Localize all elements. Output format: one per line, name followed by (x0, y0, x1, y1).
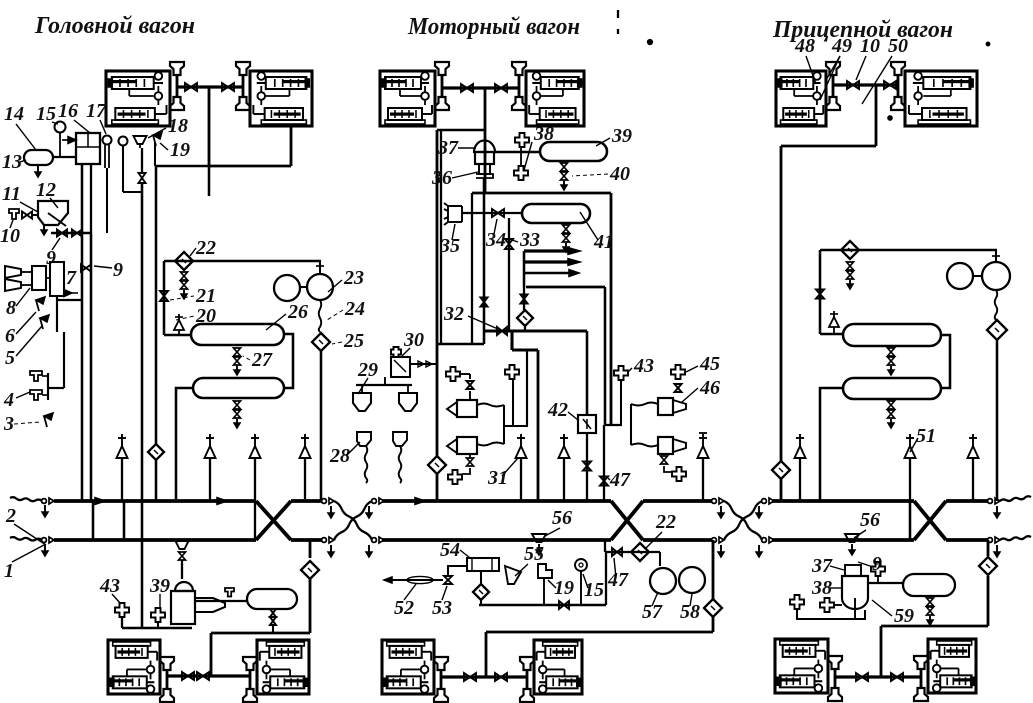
svg-text:47: 47 (609, 469, 631, 491)
valve bracket 7 (32, 266, 46, 290)
stop crane riser (520, 458, 522, 501)
leader (404, 584, 416, 600)
cross fitting 43 (115, 603, 129, 617)
leader (14, 524, 46, 545)
pipe (441, 75, 444, 97)
drain (927, 598, 934, 602)
pipe (659, 552, 661, 566)
stray mark (617, 29, 619, 34)
riser to clover 43 (620, 381, 622, 425)
hose coupling 35 (444, 203, 462, 225)
drain arrow (44, 544, 46, 556)
leader (442, 586, 447, 600)
drain arrow (720, 506, 722, 518)
pipe (820, 333, 843, 336)
svg-text:22: 22 (195, 237, 216, 259)
feed drop to head bottom bogie (210, 633, 213, 676)
pipe (437, 129, 485, 132)
svg-text:26: 26 (287, 301, 308, 323)
pipe (209, 165, 291, 168)
pipe riser (712, 540, 715, 600)
tail hose (brake, right) (1000, 536, 1031, 540)
brake cylinder hose head (right bottom) (914, 688, 928, 701)
brake pipe (motor car) (382, 538, 611, 542)
leader (652, 592, 658, 606)
sand valve right (393, 432, 407, 446)
dirt collector (473, 584, 489, 600)
electro-compressor 37 (474, 140, 495, 152)
dirt collector (979, 557, 997, 575)
valve 47 (600, 477, 608, 482)
end cock (712, 499, 717, 504)
pipe (157, 622, 159, 628)
svg-text:40: 40 (609, 163, 630, 185)
bogie brake unit block (right) (534, 640, 582, 694)
drain valve 40 (561, 163, 568, 167)
pipe to trailer dirt collector (780, 146, 783, 461)
leader (160, 143, 168, 150)
brake cylinder hose head (left top) (160, 657, 174, 670)
leader (502, 458, 518, 476)
svg-text:33: 33 (519, 229, 540, 251)
isolating valve (185, 83, 191, 91)
pipe (880, 626, 883, 630)
svg-text:13: 13 (2, 151, 22, 173)
pipe (53, 156, 76, 158)
pipe (523, 287, 525, 310)
valve (675, 384, 682, 388)
drain valve (270, 609, 276, 613)
leader (16, 326, 42, 356)
valve 53 (444, 576, 452, 580)
leader (460, 550, 470, 558)
leader (16, 392, 30, 398)
check valve (847, 262, 854, 266)
leader (458, 147, 476, 149)
release valve 3 (44, 416, 47, 427)
leader (806, 56, 816, 84)
drain 41 (563, 225, 570, 229)
pipe (484, 329, 587, 332)
feeder pipe (head car) (54, 499, 256, 503)
sand manifold (384, 377, 386, 385)
inter-car hose X (head-motor) (334, 501, 372, 540)
drain funnel on brake pipe (176, 541, 189, 549)
pipe (780, 479, 783, 501)
drain arrow (996, 506, 998, 518)
pipe from valve (122, 145, 124, 192)
svg-text:59: 59 (894, 605, 914, 627)
sand hopper right (399, 393, 417, 411)
leader (100, 120, 106, 134)
svg-text:56: 56 (552, 507, 572, 529)
connecting pipe between bogie blocks (833, 83, 898, 86)
leader (686, 366, 698, 372)
dirt collector 22 (175, 252, 193, 270)
inlet arrow (62, 139, 76, 141)
leader (856, 56, 866, 80)
pipe (155, 166, 158, 444)
pipe (142, 627, 192, 630)
end cock (762, 538, 767, 543)
pipe (606, 551, 660, 553)
squiggle (995, 290, 998, 320)
leader (358, 378, 368, 394)
leader (858, 562, 870, 566)
drain arrow (758, 506, 760, 518)
pipe (868, 582, 903, 584)
sander valve 30 (391, 357, 410, 377)
leader (512, 240, 518, 242)
pipe from funnel 18 (141, 148, 143, 172)
valve (583, 462, 591, 467)
svg-text:12: 12 (36, 179, 56, 201)
atomizer lower (658, 437, 673, 454)
check valve under 22 (181, 272, 188, 276)
stop crane riser (702, 458, 704, 501)
svg-text:5: 5 (5, 347, 15, 369)
svg-text:55: 55 (524, 543, 544, 565)
main reservoir 26 (191, 324, 284, 345)
pipe (523, 251, 526, 287)
leader (854, 530, 866, 538)
leader (628, 368, 632, 372)
svg-text:16: 16 (58, 100, 78, 122)
bogie brake unit block (right) (928, 639, 976, 693)
pipe (832, 75, 835, 97)
dash leader (170, 296, 194, 300)
valve (57, 230, 62, 237)
leader (614, 558, 616, 578)
sand pipe left (365, 446, 368, 483)
svg-text:54: 54 (440, 539, 460, 561)
svg-text:7: 7 (66, 267, 77, 289)
dash leader (243, 356, 250, 360)
cross fitting (151, 608, 165, 622)
brake cylinder hose head (left top) (434, 657, 448, 670)
pipe (163, 261, 166, 335)
leader (50, 198, 58, 208)
bogie brake unit block (left) (382, 640, 434, 694)
device 4 body (47, 373, 49, 400)
pipe (479, 604, 606, 607)
brake cylinder hose head (left bottom) (826, 97, 840, 110)
valve (521, 295, 528, 300)
pipe (410, 363, 437, 365)
svg-text:37: 37 (811, 555, 833, 577)
valve 34 (492, 209, 498, 217)
vent fitting 43 (614, 366, 628, 380)
svg-text:45: 45 (699, 353, 720, 375)
dash leader (572, 174, 608, 176)
drain arrow (996, 545, 998, 557)
car wall pipe (436, 130, 439, 456)
pipe drop from head top bogie (208, 87, 211, 166)
squiggle hose (319, 300, 322, 332)
bogie brake unit block (left) (776, 71, 826, 126)
electric air pump body (175, 582, 193, 591)
pipe (195, 600, 247, 602)
windshield sprayer 52 (384, 579, 443, 581)
bogie brake unit block (left) (775, 639, 828, 693)
leader (12, 545, 44, 562)
feed drop to motor bottom bogie (485, 632, 488, 677)
brake cylinder hose head (left top) (826, 62, 840, 75)
pipe riser (987, 540, 990, 556)
air dryer 12 (38, 201, 68, 225)
end cock (42, 499, 47, 504)
leader (10, 220, 13, 228)
pipe (483, 178, 486, 331)
junction pipe 9 (51, 232, 91, 235)
brake cylinder hose head (left bottom) (170, 97, 184, 110)
stop crane riser (254, 458, 256, 540)
leader (548, 580, 556, 588)
pipe (483, 331, 486, 344)
svg-text:Головной вагон: Головной вагон (34, 13, 195, 39)
EPV relay 42 (578, 415, 596, 433)
svg-text:9: 9 (113, 259, 123, 281)
valve (481, 298, 488, 303)
svg-text:15: 15 (584, 579, 604, 601)
stop crane riser (121, 458, 123, 501)
feed drop to trailer bottom bogie (880, 630, 883, 677)
leader (112, 594, 120, 603)
pipe (630, 404, 632, 445)
brake cylinder hose head (left top) (435, 62, 449, 75)
isolating valve (464, 673, 470, 681)
signal horn 10 (5, 279, 21, 291)
pipe (494, 151, 540, 153)
flow arrow (415, 498, 425, 505)
isolating valve (495, 84, 501, 92)
stop crane riser (304, 458, 306, 499)
pipe (834, 604, 842, 606)
pipe with bowtie 47 (603, 425, 605, 501)
stop crane riser (799, 458, 801, 501)
brake cylinder hose head (right top) (520, 657, 534, 670)
leader (159, 594, 161, 608)
leader (608, 478, 610, 480)
svg-text:39: 39 (149, 575, 170, 597)
pipe riser (537, 350, 540, 501)
svg-text:53: 53 (432, 597, 452, 619)
EPT arrow (524, 260, 570, 263)
pipe riser to right bogie block (290, 126, 293, 166)
funnel 18 (134, 136, 147, 144)
svg-text:42: 42 (547, 399, 568, 421)
stray mark (986, 42, 990, 46)
svg-text:21: 21 (195, 285, 216, 307)
svg-text:49: 49 (831, 35, 852, 57)
pipe (586, 433, 588, 501)
pipe (854, 598, 856, 619)
isolating valve (891, 673, 897, 681)
vent fitting (446, 367, 460, 381)
flow arrow (95, 498, 105, 505)
brake unit 38 (842, 576, 868, 609)
brake cylinder hose head (right top) (512, 62, 526, 75)
unloader valve 36 (479, 164, 490, 174)
pipe (512, 348, 538, 351)
drain (661, 456, 668, 460)
pressure gauge 58 (679, 567, 705, 593)
pipe (505, 425, 528, 427)
pipe (448, 566, 467, 576)
isolating valve (495, 673, 501, 681)
leader (16, 312, 36, 334)
signal horn 8 (5, 266, 21, 278)
drain (469, 454, 471, 458)
connecting pipe between bogie blocks (441, 675, 527, 678)
pipe (712, 617, 715, 632)
leader (94, 266, 112, 268)
pipe (819, 250, 822, 334)
sand pipe right (399, 446, 402, 483)
svg-text:30: 30 (403, 329, 424, 351)
valve (72, 230, 77, 237)
svg-text:27: 27 (251, 349, 273, 371)
pipe (272, 624, 274, 633)
drain arrow (758, 545, 760, 557)
valve 33 (505, 239, 513, 244)
valve 38 clover (515, 133, 529, 147)
svg-text:43: 43 (633, 355, 654, 377)
inter-pipe connector (123, 501, 126, 540)
svg-text:25: 25 (343, 330, 364, 352)
drain arrow (330, 506, 332, 518)
valve 47 (612, 548, 617, 556)
drain under lower reservoir (234, 401, 241, 405)
pipe (526, 350, 528, 426)
svg-text:10: 10 (860, 35, 880, 57)
svg-text:6: 6 (5, 325, 15, 347)
svg-text:1: 1 (4, 560, 14, 582)
brake cylinder hose head (right bottom) (512, 97, 526, 110)
funnel 55 (505, 566, 521, 584)
brake cylinder hose head (right bottom) (236, 97, 250, 110)
leader (910, 438, 918, 452)
brake cylinder hose head (right top) (243, 657, 257, 670)
dash leader (176, 316, 194, 320)
pipe from brake pipe (604, 540, 606, 552)
leader (452, 224, 455, 240)
stray mark (617, 10, 619, 18)
pipe crossover X (motor car end) (611, 501, 643, 540)
car wall pipe (440, 130, 442, 344)
bogie brake unit block (left) (106, 71, 170, 126)
leader (580, 212, 598, 240)
inter-pipe connector (92, 501, 95, 540)
motor-compressor gauge (947, 263, 973, 289)
pipe crossover X (trailer car end) (914, 501, 946, 540)
pipe (996, 340, 999, 501)
pipe (586, 331, 589, 415)
pipe (524, 326, 526, 331)
reservoir 13 (24, 150, 53, 165)
svg-text:37: 37 (437, 137, 459, 159)
leader (328, 280, 342, 292)
release valve 6 (36, 300, 39, 311)
air horn valve 54 (467, 558, 499, 571)
isolating valve (884, 81, 890, 89)
wavy link (477, 443, 504, 446)
svg-text:36: 36 (431, 167, 452, 189)
isolating valve (461, 84, 467, 92)
dirt collector (trailer riser) (772, 461, 790, 479)
vent fitting (672, 467, 686, 481)
leader (20, 202, 38, 212)
leader (494, 219, 497, 234)
valve 9b (81, 265, 86, 272)
check valve 27 (234, 348, 241, 352)
svg-text:22: 22 (655, 511, 676, 533)
pipe (480, 571, 482, 584)
pipe drop from trailer top bogie (875, 85, 878, 146)
brake cylinder hose head (left bottom) (435, 97, 449, 110)
pressure gauge 15 (55, 122, 66, 133)
leader (190, 248, 196, 256)
end cock (712, 538, 717, 543)
safety valve (833, 327, 835, 334)
pipe (164, 334, 191, 337)
dirt collector (148, 444, 164, 460)
clover (820, 598, 834, 612)
leader (266, 314, 286, 330)
svg-text:50: 50 (888, 35, 908, 57)
flow arrow (217, 498, 227, 505)
drain arrow (720, 545, 722, 557)
svg-text:47: 47 (607, 569, 629, 591)
leader (830, 566, 844, 570)
brake cylinder hose head (right top) (236, 62, 250, 75)
dirt collector (841, 241, 859, 259)
brake cylinder hose head (left bottom) (434, 689, 448, 702)
leader (402, 348, 410, 356)
leader (346, 442, 360, 456)
leader (52, 238, 60, 250)
EPT arrow (524, 249, 570, 252)
pipe (121, 617, 123, 628)
end cock (372, 499, 377, 504)
stop crane riser (972, 458, 974, 501)
dirt collector (517, 310, 533, 326)
dirt collector 24/25 (312, 333, 330, 351)
valve (467, 381, 474, 385)
bogie brake unit block (right) (257, 640, 309, 694)
vent fitting (505, 365, 519, 379)
pipe (436, 474, 439, 501)
clover (871, 562, 885, 576)
cross top (699, 432, 707, 434)
tail hose (feeder, left) (10, 497, 42, 501)
svg-text:17: 17 (86, 100, 107, 122)
leader (52, 122, 58, 124)
pipe (820, 249, 997, 252)
bogie brake unit block (left) (108, 640, 160, 694)
valve 17 (103, 136, 112, 145)
pipe (486, 631, 713, 634)
svg-text:18: 18 (168, 115, 188, 137)
svg-text:10: 10 (0, 225, 20, 247)
tee plug (30, 371, 42, 381)
valve 21 (160, 291, 168, 296)
svg-text:34: 34 (485, 229, 506, 251)
end cock (762, 499, 767, 504)
pipe from valve 17 (104, 145, 106, 168)
pipe stub (208, 166, 211, 196)
tee (995, 250, 997, 262)
